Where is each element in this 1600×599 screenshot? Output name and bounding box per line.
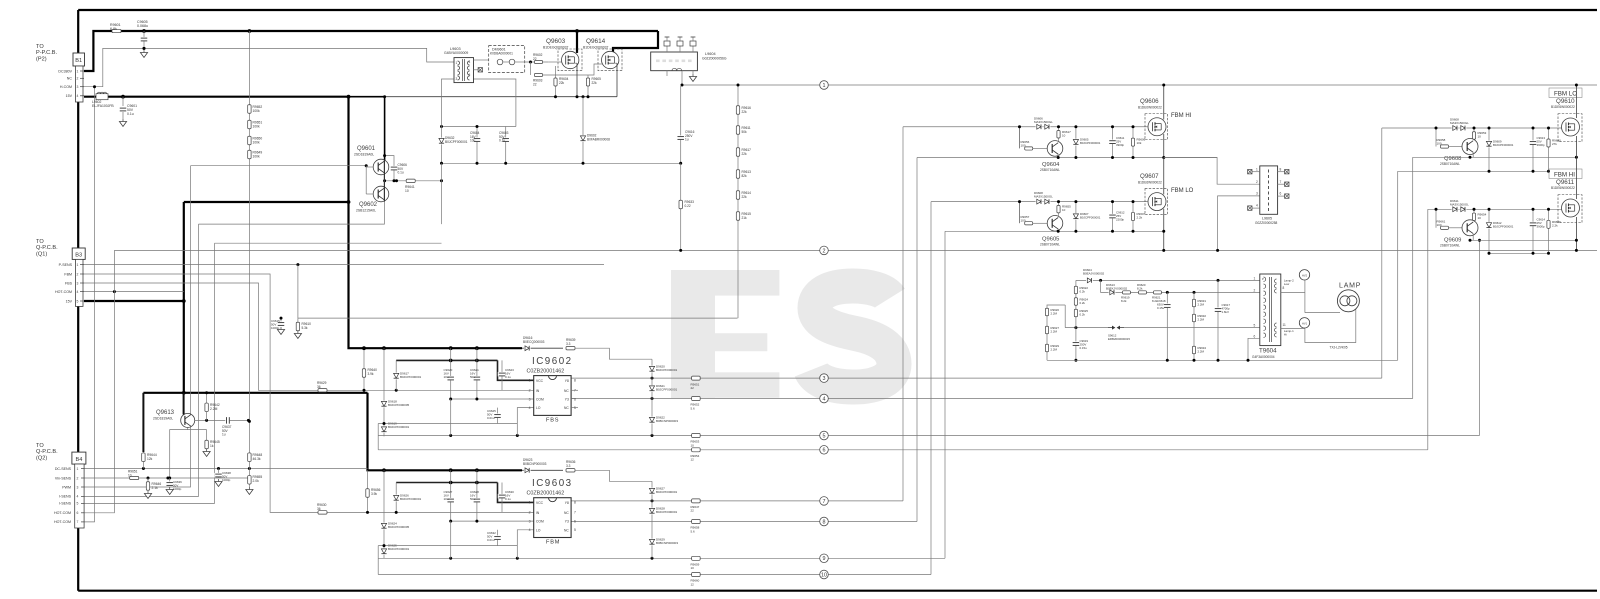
capacitor C9605 bbox=[143, 31, 145, 48]
node 8 bbox=[820, 517, 829, 526]
resistor R9630 bbox=[318, 511, 327, 514]
wire B4 Vin-SENS bbox=[84, 477, 249, 479]
svg-text:7: 7 bbox=[574, 511, 576, 515]
svg-text:4: 4 bbox=[469, 60, 471, 64]
svg-text:6: 6 bbox=[823, 448, 826, 454]
svg-text:LAMP: LAMP bbox=[1339, 283, 1361, 290]
svg-text:5: 5 bbox=[77, 299, 79, 303]
wire Q9607 source to node2 bbox=[1163, 209, 1165, 251]
svg-text:TXJ-L2VK05: TXJ-L2VK05 bbox=[1330, 346, 1348, 350]
resistor R9660 node10 bbox=[692, 573, 701, 577]
wire DC380V top bus bbox=[78, 9, 1597, 11]
svg-text:3: 3 bbox=[529, 397, 531, 401]
capacitor C9637 bbox=[225, 416, 230, 425]
wire Q9611 source to node2 bbox=[1575, 217, 1577, 250]
wire FBM to IC9603 bbox=[84, 274, 534, 512]
wire Q9607 drain bbox=[1163, 158, 1165, 195]
wire HOT-COM B3 bbox=[84, 291, 184, 293]
zener D9612 bbox=[1488, 209, 1490, 253]
zener D9605 bbox=[1075, 127, 1077, 158]
wire LO IC9603 bbox=[517, 530, 533, 559]
wire HOT-COM bottom bus bbox=[78, 590, 1597, 592]
capacitor C9616 bbox=[680, 85, 682, 163]
node 9 bbox=[820, 554, 829, 563]
svg-text:1: 1 bbox=[529, 501, 531, 505]
wire riser node7 to Q9604 gate bbox=[902, 127, 904, 501]
zener D9622 bbox=[651, 399, 653, 436]
resistor R9658 node8 bbox=[692, 520, 701, 524]
svg-text:Q9602: Q9602 bbox=[359, 202, 378, 208]
svg-text:B3: B3 bbox=[75, 253, 82, 259]
svg-text:Vin-SENS: Vin-SENS bbox=[55, 476, 72, 480]
wire lamp gnd rail bbox=[1047, 359, 1398, 361]
wire L9603 pin6 feed bbox=[474, 79, 516, 127]
rail IC9602 lower bbox=[378, 423, 517, 425]
wire node10 bbox=[378, 574, 931, 576]
wire riser node8 to Q9604 emitter bbox=[916, 158, 918, 522]
L9605 right pads 8 7 6 bbox=[1278, 171, 1285, 173]
svg-text:FBM HI: FBM HI bbox=[1171, 113, 1192, 119]
svg-text:C0ZB20001462: C0ZB20001462 bbox=[527, 369, 565, 375]
wire B4 I-SENS riser bbox=[84, 224, 199, 496]
resistor R9621 bbox=[1154, 291, 1162, 294]
capacitor C9632 bbox=[497, 530, 499, 546]
wire Q9606 drain bbox=[1163, 85, 1165, 120]
HV1 terminal bbox=[1281, 327, 1305, 329]
zener D9626 bbox=[395, 483, 397, 513]
svg-text:Q9613: Q9613 bbox=[156, 410, 175, 416]
wire node3 bbox=[571, 377, 1382, 379]
wire L9603 pin3 stub bbox=[442, 79, 454, 127]
svg-text:5: 5 bbox=[1254, 324, 1256, 328]
wire B4 PWM riser bbox=[84, 166, 191, 487]
connector B4 bbox=[72, 452, 86, 464]
svg-text:3: 3 bbox=[77, 85, 79, 89]
wire riser node6 to Q9609 gate bbox=[1427, 209, 1429, 449]
svg-text:5: 5 bbox=[823, 433, 826, 439]
resistor R9659 node9 bbox=[692, 556, 701, 560]
svg-text:B1DE6W000022: B1DE6W000022 bbox=[1138, 181, 1162, 185]
wire B4 DC-SENS bbox=[84, 468, 368, 470]
resistor R9636 bbox=[566, 469, 575, 472]
wire 15V branch left bbox=[184, 201, 349, 203]
svg-text:P: P bbox=[1262, 277, 1264, 281]
svg-text:Q9606: Q9606 bbox=[1140, 98, 1159, 105]
svg-text:B1DE6W000022: B1DE6W000022 bbox=[1551, 105, 1575, 109]
rail IC9603 lower bbox=[378, 545, 517, 547]
wire node2 HOT return rail bbox=[114, 249, 1597, 251]
node 2 bbox=[820, 246, 829, 255]
zener D9632 bbox=[441, 127, 443, 164]
capacitor C9603 bbox=[505, 127, 507, 164]
svg-text:Q9614: Q9614 bbox=[586, 38, 606, 45]
svg-text:Y3: Y3 bbox=[565, 398, 569, 402]
resistor R9610 bbox=[297, 318, 299, 330]
svg-text:4: 4 bbox=[823, 396, 826, 402]
capacitor C9613 bbox=[1532, 128, 1534, 171]
capacitor C9636 bbox=[168, 477, 171, 480]
node 1 bbox=[820, 81, 829, 90]
resistor R9640 bbox=[1548, 128, 1550, 171]
svg-text:T9604: T9604 bbox=[1259, 348, 1277, 355]
svg-text:Q9610: Q9610 bbox=[1556, 98, 1575, 105]
resistor R9655 bbox=[1058, 202, 1060, 217]
wire riser node4 to Q9608 emitter bbox=[1412, 157, 1414, 398]
capacitor C9615 bbox=[280, 318, 282, 325]
svg-text:15V: 15V bbox=[66, 299, 73, 303]
watermark ES bbox=[671, 270, 894, 398]
svg-text:3: 3 bbox=[823, 376, 826, 382]
diode module DM9601 bbox=[489, 46, 525, 73]
wire LO IC9602 bbox=[517, 408, 533, 436]
wire Q9608 rc rail bbox=[1398, 170, 1549, 172]
zener D9627 bbox=[651, 481, 653, 501]
svg-text:8: 8 bbox=[1283, 286, 1285, 290]
svg-text:COM: COM bbox=[536, 520, 544, 524]
resistor R9603 bbox=[530, 62, 532, 75]
svg-text:2: 2 bbox=[529, 511, 531, 515]
svg-text:Y8: Y8 bbox=[565, 501, 569, 505]
svg-text:2SB1215A0L: 2SB1215A0L bbox=[356, 209, 376, 213]
svg-text:6: 6 bbox=[574, 397, 576, 401]
svg-text:2SD1819A0L: 2SD1819A0L bbox=[354, 153, 374, 157]
capacitor C9628 bbox=[476, 470, 478, 521]
15V local bus IC9602 bbox=[396, 359, 497, 361]
inductor L9602 bbox=[96, 94, 108, 100]
wire rectifier top rail bbox=[442, 126, 516, 128]
svg-text:7: 7 bbox=[77, 520, 79, 524]
capacitor C9618 bbox=[1166, 292, 1168, 360]
svg-text:I-SENS: I-SENS bbox=[59, 502, 72, 506]
wire node1 FBM HI rail bbox=[682, 84, 1597, 86]
svg-text:1: 1 bbox=[77, 263, 79, 267]
wire y96.7 continuation bbox=[385, 96, 548, 98]
resistor R9656b bbox=[367, 470, 369, 512]
svg-text:5: 5 bbox=[574, 528, 576, 532]
capacitor C9621 bbox=[476, 348, 478, 399]
svg-text:8: 8 bbox=[823, 519, 826, 525]
HV2 terminal bbox=[1281, 292, 1305, 294]
wire L9603 pin4 to DM9601 bbox=[474, 59, 489, 61]
resistor R9652 node4 bbox=[692, 397, 701, 401]
wire Q9603 drain feed bbox=[576, 31, 578, 53]
wire Q9611 drain bbox=[1575, 157, 1577, 199]
svg-text:Q9601: Q9601 bbox=[357, 146, 376, 152]
svg-text:NC: NC bbox=[564, 511, 569, 515]
resistor R9606 bbox=[1132, 127, 1134, 158]
svg-text:4: 4 bbox=[77, 495, 79, 499]
wire node4 bbox=[571, 398, 1413, 400]
connector B3 bbox=[72, 248, 85, 259]
diode D9602 bbox=[582, 97, 584, 164]
svg-text:7: 7 bbox=[823, 499, 826, 505]
wire COM IC9602 bbox=[451, 398, 534, 400]
svg-text:2: 2 bbox=[77, 476, 79, 480]
svg-text:9: 9 bbox=[823, 556, 826, 562]
svg-text:6: 6 bbox=[469, 73, 471, 77]
wire P-SENS divider rail bbox=[298, 317, 738, 319]
svg-text:2SB0710AWL: 2SB0710AWL bbox=[1040, 243, 1060, 247]
wire Q9603 source bbox=[574, 62, 577, 64]
resistor R9633 bbox=[680, 163, 682, 250]
svg-text:7: 7 bbox=[1280, 180, 1282, 184]
wire Q9609 emitter rail bbox=[1470, 239, 1576, 241]
resistor R9641 bbox=[406, 179, 415, 182]
resistor R9646 bbox=[147, 478, 149, 486]
wire 15V riser B3/B4 bbox=[183, 202, 185, 393]
capacitor C9638 bbox=[218, 469, 220, 479]
L9605 pin1 pad bbox=[1252, 171, 1260, 173]
svg-text:4: 4 bbox=[77, 290, 79, 294]
node 4 bbox=[820, 394, 829, 403]
wire lamp rail D9604 bbox=[1076, 279, 1260, 281]
capacitor C9606 bbox=[385, 156, 394, 181]
wire gate feed bbox=[525, 61, 549, 63]
svg-text:Q9611: Q9611 bbox=[1556, 179, 1575, 186]
svg-text:FBM: FBM bbox=[546, 540, 560, 546]
svg-text:2SB0710AWL: 2SB0710AWL bbox=[1040, 168, 1060, 172]
svg-text:DC-SENS: DC-SENS bbox=[55, 467, 72, 471]
svg-text:3: 3 bbox=[77, 485, 79, 489]
resistor R9651 node3 bbox=[692, 376, 701, 380]
wire Q9606 source bbox=[1163, 134, 1165, 158]
svg-text:P-SENS: P-SENS bbox=[59, 263, 73, 267]
svg-text:1: 1 bbox=[456, 61, 458, 65]
wire node5 bbox=[378, 435, 1479, 437]
resistor R9653 node5 bbox=[692, 434, 701, 438]
svg-text:B1: B1 bbox=[75, 58, 82, 64]
resistor R9658 bbox=[1441, 145, 1449, 148]
svg-text:FBM HI: FBM HI bbox=[1554, 172, 1575, 179]
svg-text:2: 2 bbox=[77, 77, 79, 81]
capacitor C9620 bbox=[450, 348, 452, 399]
lamp wiring bottom bbox=[1305, 309, 1356, 343]
wire FBS to IC9602 bbox=[84, 283, 534, 390]
svg-text:H-COM: H-COM bbox=[60, 85, 72, 89]
resistor R9629 bbox=[318, 389, 327, 392]
svg-text:C0ZB20001462: C0ZB20001462 bbox=[527, 491, 565, 497]
svg-text:4: 4 bbox=[77, 94, 79, 98]
wire Q9610 source bbox=[1575, 136, 1577, 157]
zener D9629 bbox=[651, 522, 653, 559]
wire COM IC9603 bbox=[451, 520, 534, 522]
wire pin6 to node4 bbox=[571, 398, 576, 400]
svg-text:DC380V: DC380V bbox=[58, 69, 72, 73]
svg-text:VCC: VCC bbox=[536, 501, 544, 505]
svg-text:Q9607: Q9607 bbox=[1140, 173, 1159, 180]
svg-text:Y8: Y8 bbox=[565, 379, 569, 383]
svg-text:10: 10 bbox=[821, 572, 827, 578]
ground L9604 bbox=[692, 71, 694, 74]
wire Q9609 gate rail bbox=[1428, 208, 1562, 210]
svg-text:FBM: FBM bbox=[64, 272, 72, 276]
resistor chain R9652 R9651 R9650 R9649 bbox=[248, 31, 250, 421]
svg-text:I-SENS: I-SENS bbox=[59, 495, 72, 499]
svg-text:G0ZZ0000056G: G0ZZ0000056G bbox=[702, 56, 727, 60]
transistor Q9609 bbox=[1462, 220, 1478, 236]
wire riser node3 to Q9608 gate bbox=[1381, 128, 1383, 378]
svg-text:HOT-COM: HOT-COM bbox=[55, 290, 72, 294]
resistor chain R9622 R9624 R9625 bbox=[1075, 280, 1077, 360]
wire Q9613 base bbox=[170, 427, 188, 478]
capacitor C9627 bbox=[450, 470, 452, 521]
svg-text:2: 2 bbox=[1254, 288, 1256, 292]
svg-text:K0DBA0000001: K0DBA0000001 bbox=[490, 52, 513, 56]
resistor R9640 bbox=[363, 348, 365, 390]
svg-text:1: 1 bbox=[1254, 276, 1256, 280]
zener D9628 bbox=[651, 501, 653, 522]
svg-text:HOT-COM: HOT-COM bbox=[54, 520, 71, 524]
wire riser node10 to Q9605 gate bbox=[930, 202, 932, 575]
wire Q9601 Q9602 base rail bbox=[191, 165, 367, 167]
svg-text:NC: NC bbox=[564, 389, 569, 393]
capacitor C9604 bbox=[476, 127, 478, 164]
diode D9608 bbox=[1019, 202, 1021, 223]
wire Q9610 drain bbox=[1575, 85, 1577, 118]
resistor R9657 bbox=[1025, 222, 1033, 225]
zener D9620 bbox=[651, 359, 653, 378]
transistor Q9604 bbox=[1047, 141, 1063, 157]
svg-text:2: 2 bbox=[77, 272, 79, 276]
svg-text:2: 2 bbox=[529, 389, 531, 393]
node 5 bbox=[820, 431, 829, 440]
wire node6 bbox=[378, 449, 1428, 451]
svg-text:1: 1 bbox=[823, 83, 826, 89]
svg-text:PWM: PWM bbox=[62, 485, 71, 489]
svg-text:2SB0710AWL: 2SB0710AWL bbox=[1440, 162, 1460, 166]
diode D9611 bbox=[1452, 206, 1459, 212]
resistor R9651b bbox=[130, 476, 139, 479]
svg-text:4: 4 bbox=[529, 528, 531, 532]
zener D9617 bbox=[395, 360, 397, 390]
diode D9608 bbox=[1452, 125, 1459, 131]
L9605 pin4 pad bbox=[1252, 207, 1260, 209]
svg-text:8: 8 bbox=[1280, 167, 1282, 171]
svg-text:2: 2 bbox=[823, 248, 826, 254]
wire Q9613 emitter rail bbox=[195, 419, 250, 421]
node 7 bbox=[820, 497, 829, 506]
svg-text:1: 1 bbox=[77, 467, 79, 471]
capacitor C9630 bbox=[501, 483, 503, 513]
resistor R9619 bbox=[1123, 291, 1131, 294]
svg-text:4: 4 bbox=[529, 406, 531, 410]
wire FET source rail bbox=[548, 96, 617, 98]
svg-text:3: 3 bbox=[529, 519, 531, 523]
zener D9618 bbox=[383, 348, 385, 423]
resistor R9654 node6 bbox=[692, 448, 701, 452]
svg-text:LO: LO bbox=[536, 528, 541, 532]
svg-text:Y3: Y3 bbox=[565, 520, 569, 524]
svg-text:HV2: HV2 bbox=[1302, 273, 1308, 277]
wire 15V from B1 pin4 bbox=[84, 96, 349, 98]
wire Q9601 base riser bbox=[365, 166, 367, 194]
svg-text:11: 11 bbox=[1283, 323, 1287, 327]
capacitor C9614 bbox=[1532, 209, 1534, 253]
resistor R9607 bbox=[1132, 202, 1134, 232]
capacitor C9611 bbox=[1112, 127, 1114, 158]
svg-text:6: 6 bbox=[1280, 192, 1282, 196]
wire Q9614 drain feed bbox=[613, 31, 658, 53]
wire HOT-COM riser node2 to B4 bbox=[84, 250, 114, 512]
wire Q9608 gate rail bbox=[1382, 127, 1562, 129]
resistor R9648 bbox=[248, 421, 250, 468]
resistor R9617 bbox=[1058, 127, 1060, 142]
svg-text:3: 3 bbox=[1256, 192, 1258, 196]
zener D9621 bbox=[651, 378, 653, 398]
zener D9609 bbox=[1488, 128, 1490, 171]
node 10 bbox=[820, 570, 829, 579]
svg-text:B1DE0W000022: B1DE0W000022 bbox=[1138, 106, 1162, 110]
wire Q9602 emitter bbox=[199, 202, 385, 225]
svg-text:FBS: FBS bbox=[65, 281, 73, 285]
diode D9623 bbox=[522, 469, 563, 471]
resistor R9605 bbox=[587, 75, 589, 97]
svg-text:G0ZZ00000258: G0ZZ00000258 bbox=[1255, 221, 1278, 225]
wire Q9601 emitter junction bbox=[385, 180, 442, 182]
svg-text:1: 1 bbox=[529, 379, 531, 383]
wire Q9608 emitter rail bbox=[1413, 156, 1577, 158]
pad L9603 pin5 bbox=[474, 69, 479, 71]
svg-text:FBM LO: FBM LO bbox=[1171, 188, 1194, 194]
svg-text:NC: NC bbox=[564, 406, 569, 410]
resistor R9639 bbox=[566, 347, 575, 350]
wire 15V B3 pin5 bbox=[84, 300, 184, 302]
wire 15V riser to IC9602 bbox=[349, 97, 523, 349]
svg-text:FBS: FBS bbox=[546, 418, 559, 424]
wire 15V rail Q9613 bbox=[143, 392, 367, 394]
svg-text:G4F3A0000004: G4F3A0000004 bbox=[1252, 355, 1275, 359]
svg-text:6: 6 bbox=[574, 519, 576, 523]
capacitor C9625 bbox=[497, 408, 499, 424]
svg-text:G4BYA0000009: G4BYA0000009 bbox=[444, 51, 468, 55]
jumper pads above L9604 bbox=[666, 46, 668, 52]
capacitor C9601 bbox=[122, 97, 124, 106]
resistor chain R9626 R9627 R9629 bbox=[1047, 305, 1065, 360]
15V local bus IC9603 bbox=[396, 482, 497, 484]
svg-text:8: 8 bbox=[574, 501, 576, 505]
capacitor C9612 bbox=[1112, 202, 1114, 232]
svg-text:8: 8 bbox=[574, 379, 576, 383]
wire node7 bbox=[571, 500, 903, 502]
svg-text:6: 6 bbox=[77, 511, 79, 515]
zener D9619 bbox=[383, 424, 385, 437]
zener D9625 bbox=[383, 546, 385, 559]
resistor R9654 bbox=[1473, 209, 1475, 224]
wire B1 riser bbox=[77, 10, 79, 591]
resistor R9604 bbox=[555, 66, 557, 97]
spark gap S9612 bbox=[1065, 327, 1260, 329]
capacitor C9619 bbox=[1072, 341, 1081, 346]
svg-text:HV1: HV1 bbox=[1302, 321, 1308, 325]
zener D9624 bbox=[383, 470, 385, 545]
wire Q9607 source to L9605 pin2 bbox=[1164, 158, 1260, 185]
connector B1 bbox=[73, 53, 85, 66]
svg-text:NC: NC bbox=[67, 77, 73, 81]
wire B4 I-SENS2 riser bbox=[84, 243, 215, 503]
svg-text:B1DE6W000022: B1DE6W000022 bbox=[1551, 186, 1575, 190]
svg-text:2: 2 bbox=[1256, 180, 1258, 184]
wire P-SENS bbox=[84, 264, 604, 266]
zener D9607 bbox=[1075, 202, 1077, 232]
connector L9605 bbox=[1260, 166, 1278, 214]
svg-text:B1DEGQ000037: B1DEGQ000037 bbox=[543, 46, 569, 50]
wire I-SENS long bbox=[215, 242, 442, 244]
svg-text:C96050.068u: C96050.068u bbox=[137, 20, 148, 28]
wire riser T9604 rail bbox=[1397, 171, 1399, 360]
svg-text:IC9603: IC9603 bbox=[532, 478, 573, 489]
wire Q9609 rc rail bbox=[1489, 252, 1549, 254]
capacitor C9623 bbox=[501, 360, 503, 390]
